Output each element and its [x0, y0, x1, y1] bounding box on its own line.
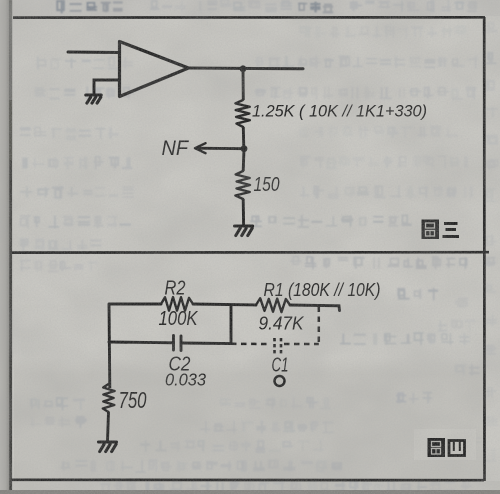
wire op-amp input	[68, 51, 119, 54]
wire top rail mid	[193, 304, 256, 305]
wire	[242, 127, 245, 149]
page left edge	[0, 0, 10, 494]
wire junction vertical	[230, 305, 233, 344]
wire	[108, 412, 109, 441]
label figure-3 (san)	[443, 224, 460, 237]
label 0 (C1 open)	[275, 376, 285, 386]
wire op-amp ref to ground	[94, 80, 119, 94]
label figure-4 (si)	[449, 441, 465, 456]
wire C2 branch left	[109, 341, 173, 345]
ground (150 bottom)	[235, 226, 253, 236]
wire dashed C1 branch right	[284, 343, 319, 346]
op-amp U1	[120, 42, 189, 97]
resistor R1	[256, 298, 290, 312]
wire left branch vertical	[108, 304, 112, 388]
wire top rail left	[109, 303, 161, 306]
resistor 150	[235, 171, 250, 199]
wire C2 branch right	[181, 342, 231, 346]
capacitor C1	[275, 338, 282, 354]
ground (op-amp ref)	[86, 95, 101, 103]
node output junction	[240, 65, 247, 72]
wire top rail right	[290, 305, 340, 311]
wire	[242, 69, 245, 100]
light patch behind figure-4 label	[414, 429, 476, 460]
wire	[242, 149, 246, 171]
resistor R2	[161, 297, 193, 311]
wire NF arrow	[196, 147, 244, 150]
ground (750 bottom)	[99, 442, 117, 452]
label figure-3 (tu)	[422, 220, 440, 240]
resistor 750	[103, 384, 115, 412]
resistor 1.25K	[236, 100, 250, 127]
page bottom edge	[0, 490, 500, 494]
node NF junction	[241, 145, 248, 152]
wire	[242, 199, 245, 225]
label figure-4 (tu)	[428, 438, 446, 457]
capacitor C2	[174, 336, 182, 351]
wire dashed C1 branch left	[231, 343, 268, 346]
wire dashed vertical	[318, 307, 321, 345]
wire op-amp output	[189, 67, 304, 71]
